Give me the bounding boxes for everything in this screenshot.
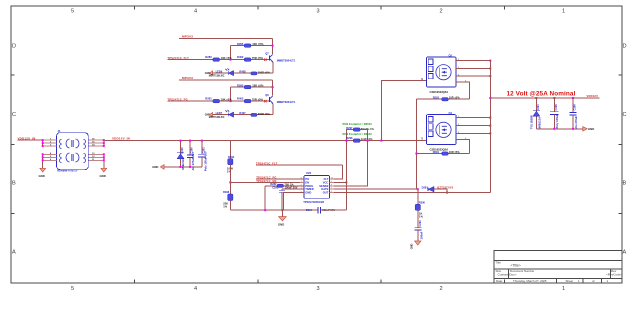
svg-text:PCB Footprint = R2512: PCB Footprint = R2512 (343, 132, 373, 136)
svg-text:U20: U20 (306, 171, 312, 175)
resistor R280 10K series (205, 55, 232, 61)
svg-text:Alu 470uF: Alu 470uF (574, 116, 578, 129)
wire LED row (lower) (213, 114, 273, 116)
TVS diode D290 on input rail (177, 141, 185, 170)
IC U20 TPS2471DDGSR (303, 171, 329, 204)
svg-text:2: 2 (440, 9, 443, 15)
svg-text:R295: R295 (237, 83, 244, 87)
resistor R295 10K pullup (lower) (231, 83, 273, 101)
svg-text:of: of (592, 279, 595, 283)
svg-text:FLT: FLT (324, 177, 329, 181)
wire SENSE to rail (334, 141, 368, 186)
svg-text:SMBJ12A: SMBJ12A (181, 158, 185, 170)
resistor R407 300R LED (lower) (239, 111, 270, 116)
junction dot VCC tap (345, 181, 347, 183)
svg-text:S: S (421, 77, 423, 81)
svg-text:10R ±5%: 10R ±5% (449, 96, 460, 100)
svg-text:C294: C294 (306, 208, 313, 212)
junction dot base network (lower) (230, 100, 232, 102)
net label MP3V3 (upper LED block) (179, 35, 273, 39)
svg-text:R293: R293 (433, 96, 440, 100)
svg-text:9: 9 (331, 181, 332, 183)
svg-text:R407: R407 (239, 111, 246, 115)
svg-text:GATE: GATE (321, 187, 328, 191)
svg-text:D290: D290 (180, 147, 184, 154)
wire Q2 drain pins to bus (456, 61, 490, 77)
svg-text:6: 6 (331, 191, 332, 193)
svg-text:GND: GND (100, 174, 106, 178)
svg-text:5: 5 (71, 9, 74, 15)
IC U20 pin numbers right (331, 178, 333, 194)
junction dot gate bus lower (415, 153, 417, 155)
svg-text:B: B (623, 181, 627, 187)
no-connect X marker upper base (264, 59, 266, 61)
svg-text:Date:: Date: (496, 279, 503, 283)
connector contact glyphs row 1 (60, 139, 86, 149)
svg-text:PCB Footprint = R2512: PCB Footprint = R2512 (343, 122, 373, 126)
svg-text:R300: R300 (419, 200, 426, 204)
wire base row (lower) (167, 100, 269, 102)
transistor Q6 MMBT3904LT1 (265, 93, 296, 104)
svg-text:3: 3 (317, 9, 320, 15)
connector pin stubs right bottom group (88, 153, 104, 161)
svg-text:R402: R402 (237, 55, 244, 59)
svg-text:Alu 470uF 25V: Alu 470uF 25V (191, 152, 195, 171)
svg-text:B: B (12, 181, 16, 187)
svg-text:Title: Title (496, 260, 502, 264)
svg-text:R408: R408 (239, 70, 246, 74)
svg-text:TVS_BIDIR: TVS_BIDIR (529, 115, 533, 129)
junction dots right 12V bus (103, 139, 105, 147)
wire left GND bus (42, 154, 44, 168)
junction dot pullup tap (lower) (272, 86, 274, 88)
wire FLT down to pin 10 (334, 165, 343, 179)
wire EN to IC (230, 181, 304, 183)
svg-text:C296: C296 (573, 104, 577, 111)
LED LED7 (209, 110, 234, 119)
svg-text:A: A (623, 250, 627, 256)
svg-text:C295: C295 (554, 104, 558, 111)
svg-text:MMBT3904LT1: MMBT3904LT1 (277, 100, 296, 104)
svg-text:D281: D281 (422, 185, 429, 189)
wire MP3V3 down to collector (lower) (272, 80, 274, 95)
svg-text:A: A (12, 250, 16, 256)
svg-text:GND: GND (410, 244, 414, 250)
junction dots Q4 drain bus (489, 117, 491, 135)
svg-text:PROG: PROG (305, 184, 313, 188)
wire Q4 gate pin4 (456, 140, 469, 154)
junction dot zener to OUT (446, 192, 448, 194)
svg-text:C: C (12, 112, 16, 118)
junction dots sense cluster on rail (345, 140, 382, 142)
wire top MOSFET source to rail (381, 81, 426, 141)
resistor R403 75R series (lower) (237, 97, 264, 103)
svg-text:Poly 100uF 16V: Poly 100uF 16V (203, 151, 207, 171)
svg-text:Thursday, March 27, 2025: Thursday, March 27, 2025 (513, 279, 547, 283)
svg-text:D: D (623, 44, 627, 50)
TVS diode D291 output (529, 98, 541, 129)
resistor R294 10R gate Q4 (416, 150, 469, 155)
resistor R398 22K divider bottom (223, 182, 233, 210)
svg-text:10K ±5%: 10K ±5% (221, 56, 233, 60)
svg-text:D: D (12, 44, 16, 50)
svg-text:MBT7136LI5C: MBT7136LI5C (209, 116, 225, 119)
wire analog ground line (230, 209, 318, 211)
resistor R300 1K gate RC (415, 189, 425, 228)
svg-text:GND: GND (588, 127, 594, 131)
title block (494, 251, 623, 284)
svg-text:R296: R296 (237, 42, 244, 46)
capacitor C294 100nF series on ground line (306, 207, 347, 213)
svg-text:PG: PG (305, 177, 309, 181)
svg-text:10: 10 (331, 178, 333, 180)
svg-text:1: 1 (562, 286, 565, 292)
ground symbol upper LED (205, 71, 213, 75)
svg-text:J1: J1 (58, 129, 62, 133)
svg-text:100nF: 100nF (419, 231, 423, 239)
grid row labels right (623, 44, 627, 256)
wire VCC to rail tap (334, 181, 347, 183)
svg-text:10K ±5%: 10K ±5% (252, 42, 264, 46)
resistor R296 10K pullup (231, 42, 273, 60)
IC U20 pin names left (305, 177, 313, 195)
svg-text:C292: C292 (272, 186, 279, 190)
svg-text:SENSE: SENSE (319, 184, 328, 188)
junction dots left GND bus (42, 153, 44, 161)
resistor R281 10K series (lower) (205, 97, 232, 103)
ground symbol gate RC (410, 241, 421, 249)
svg-text:R297: R297 (346, 126, 353, 130)
junction dots output ground line (553, 128, 574, 130)
grid column labels top (71, 9, 565, 15)
IC U20 pin names right (319, 177, 328, 195)
grid row labels left (12, 44, 16, 256)
svg-text:MMBT3904LT1: MMBT3904LT1 (277, 58, 296, 62)
svg-text:Q7: Q7 (265, 52, 269, 56)
svg-text:R403: R403 (237, 97, 244, 101)
svg-text:HDR8MFIT007LF: HDR8MFIT007LF (57, 169, 78, 173)
svg-text:12 Volt @25A Nominal: 12 Volt @25A Nominal (507, 91, 576, 98)
svg-text:R393: R393 (228, 155, 235, 159)
IC U20 pin numbers left (301, 178, 302, 194)
junction dot base network (230, 59, 232, 61)
wire Q4 drain pins to bus (456, 118, 490, 134)
svg-text:7: 7 (331, 188, 332, 190)
svg-text:VCC: VCC (323, 180, 329, 184)
junction dots left 12V bus (42, 139, 44, 147)
transistor Q7 MMBT3904LT1 (265, 52, 296, 63)
wire 12V output rail (490, 97, 599, 99)
svg-text:VDD12V: VDD12V (587, 94, 599, 98)
ground symbol output (right pointing) (583, 127, 594, 131)
pin numbers Q4 (458, 116, 467, 140)
svg-text:C: C (623, 112, 627, 118)
wire output ground line (536, 128, 583, 130)
svg-text:C293: C293 (418, 220, 422, 227)
wire LED row (213, 72, 273, 74)
wire GATE row (334, 188, 418, 190)
svg-text:MP3V3: MP3V3 (182, 76, 193, 80)
svg-text:R294: R294 (433, 150, 440, 154)
wire VCC vertical to rail and bypass (345, 141, 347, 211)
junction dot output rail (489, 97, 491, 99)
net label VDD12V_IN (left border) (18, 136, 43, 140)
capacitor C295 output bulk (550, 98, 559, 129)
svg-text:300R ±5%: 300R ±5% (258, 70, 271, 74)
resistor R402 75R series (237, 55, 264, 61)
svg-text:EN: EN (305, 180, 309, 184)
wire shunt bottom line (164, 166, 202, 168)
resistor R282 75K on PROG (265, 182, 304, 210)
svg-text:75R ±5%: 75R ±5% (252, 56, 264, 60)
svg-text:GND: GND (305, 191, 311, 195)
no-connect X marker lower base (264, 100, 266, 102)
svg-text:TIMER: TIMER (305, 187, 313, 191)
svg-text:<Title>: <Title> (511, 263, 521, 267)
transistor Q4 CSD19533Q5A (lower MOSFET) (427, 111, 457, 152)
wire MP3V3 down to collector (272, 39, 274, 54)
svg-text:1: 1 (562, 9, 565, 15)
capacitor C293 gate RC (414, 220, 423, 241)
IC U20 pin stubs left (300, 179, 304, 193)
junction dots on ground line (264, 209, 283, 211)
svg-text:4: 4 (194, 9, 197, 15)
junction dot gate node (417, 188, 419, 190)
svg-text:3: 3 (301, 181, 302, 183)
svg-text:GND: GND (278, 222, 284, 226)
capacitor C296 output (570, 98, 578, 129)
svg-text:<RevCode>: <RevCode> (606, 272, 623, 276)
ground symbol shunt (152, 165, 164, 170)
svg-text:CSD19533Q5A: CSD19533Q5A (430, 90, 449, 94)
svg-text:5: 5 (71, 286, 74, 292)
junction dot EN node (229, 181, 231, 183)
svg-text:10R ±5%: 10R ±5% (449, 150, 460, 154)
capacitor C290 on input rail (187, 141, 195, 171)
svg-text:1: 1 (607, 279, 609, 283)
zener D281 gate clamp (422, 185, 454, 192)
wire left 12V bus (42, 140, 44, 146)
svg-text:3: 3 (317, 286, 320, 292)
wire drain output bus vertical (489, 61, 491, 193)
svg-text:S: S (421, 137, 423, 141)
svg-text:TPS2471DDGSR: TPS2471DDGSR (303, 200, 324, 204)
svg-text:D291: D291 (536, 104, 540, 111)
transistor Q2 CSD19533Q5A (upper MOSFET) (421, 53, 456, 94)
connector J1 input header (57, 129, 89, 173)
ground symbol lower LED (205, 112, 213, 116)
svg-text:75R ±5%: 75R ±5% (252, 97, 264, 101)
svg-text:10K ±5%: 10K ±5% (221, 97, 233, 101)
junction dots Q2 drain bus (489, 60, 491, 78)
connector pin stubs left bottom group (43, 152, 57, 161)
svg-text:OUT: OUT (323, 191, 329, 195)
wire gate bus vertical (415, 99, 417, 189)
resistor R297 50mR sense (parallel) (346, 126, 374, 141)
svg-text:R282: R282 (270, 182, 277, 186)
svg-text:LED7: LED7 (216, 111, 223, 115)
junction dots right GND bus (103, 153, 105, 161)
capacitor C291 on input rail (198, 141, 208, 171)
junction dot pullup tap (272, 45, 274, 47)
capacitor C292 100nF on TIMER (272, 186, 304, 211)
junction dots output rail (535, 97, 574, 99)
svg-text:300R ±5%: 300R ±5% (258, 112, 271, 116)
svg-text:4: 4 (194, 286, 197, 292)
svg-text:2: 2 (440, 286, 443, 292)
junction dots shunt line (179, 140, 203, 168)
svg-text:R298: R298 (346, 136, 353, 140)
svg-text:GND: GND (152, 165, 158, 169)
svg-text:<Doc>: <Doc> (508, 272, 517, 276)
svg-text:1%: 1% (419, 214, 423, 218)
wire collector up / emitter down (272, 62, 274, 73)
ground symbol right of connector (100, 168, 107, 178)
connector pin stubs right top group (88, 139, 104, 147)
wire base row (167, 59, 269, 61)
svg-text:BZT52C6V2: BZT52C6V2 (437, 185, 453, 189)
svg-text:R398: R398 (223, 190, 230, 194)
svg-text:MP3V3: MP3V3 (182, 35, 193, 39)
IC U20 pin stubs right (330, 179, 334, 193)
connector contact glyphs row 2 (60, 153, 86, 163)
LED LED9 (209, 68, 234, 77)
grid column labels bottom (71, 286, 565, 292)
svg-text:R281: R281 (205, 97, 212, 101)
svg-text:10K ±5%: 10K ±5% (252, 84, 264, 88)
resistor R408 300R LED (239, 70, 270, 75)
net label TPS2471C_FLT at IC (256, 161, 343, 165)
net label MP3V3 (lower LED block) (179, 76, 273, 80)
net label TPS2471C_PG at IC (256, 175, 304, 179)
resistor R298 1mR sense (in rail) (346, 136, 373, 142)
svg-text:SMBJ12A: SMBJ12A (537, 117, 541, 129)
ground symbol below IC (278, 210, 286, 226)
wire OUT row to drain bus (334, 192, 490, 194)
svg-text:MBT7136LI5C: MBT7136LI5C (209, 74, 225, 77)
svg-text:Poly 100uF: Poly 100uF (555, 114, 559, 129)
wire right 12V bus (103, 140, 105, 146)
svg-text:Q6: Q6 (265, 93, 269, 97)
svg-text:Sheet: Sheet (566, 279, 574, 283)
svg-text:R280: R280 (205, 55, 212, 59)
resistor R293 10R gate Q2 (416, 96, 469, 101)
wire emitter down (lower) (272, 103, 274, 114)
svg-text:GND: GND (39, 174, 45, 178)
svg-text:1: 1 (578, 279, 580, 283)
resistor R393 100K divider top (227, 141, 235, 183)
wire Q2 gate pin4 (456, 82, 469, 99)
svg-text:8: 8 (331, 184, 332, 186)
svg-text:LED9: LED9 (216, 70, 223, 74)
connector pin stubs left top group (43, 139, 57, 147)
wire GND pin to ground line (283, 193, 304, 211)
svg-text:100nF 50V: 100nF 50V (285, 186, 298, 190)
wire right GND bus (103, 154, 105, 168)
ground symbol left of connector (39, 168, 46, 178)
svg-text:VDD12V_IN: VDD12V_IN (112, 136, 130, 140)
wire main input rail (104, 140, 427, 142)
pin numbers Q2 (458, 59, 467, 83)
